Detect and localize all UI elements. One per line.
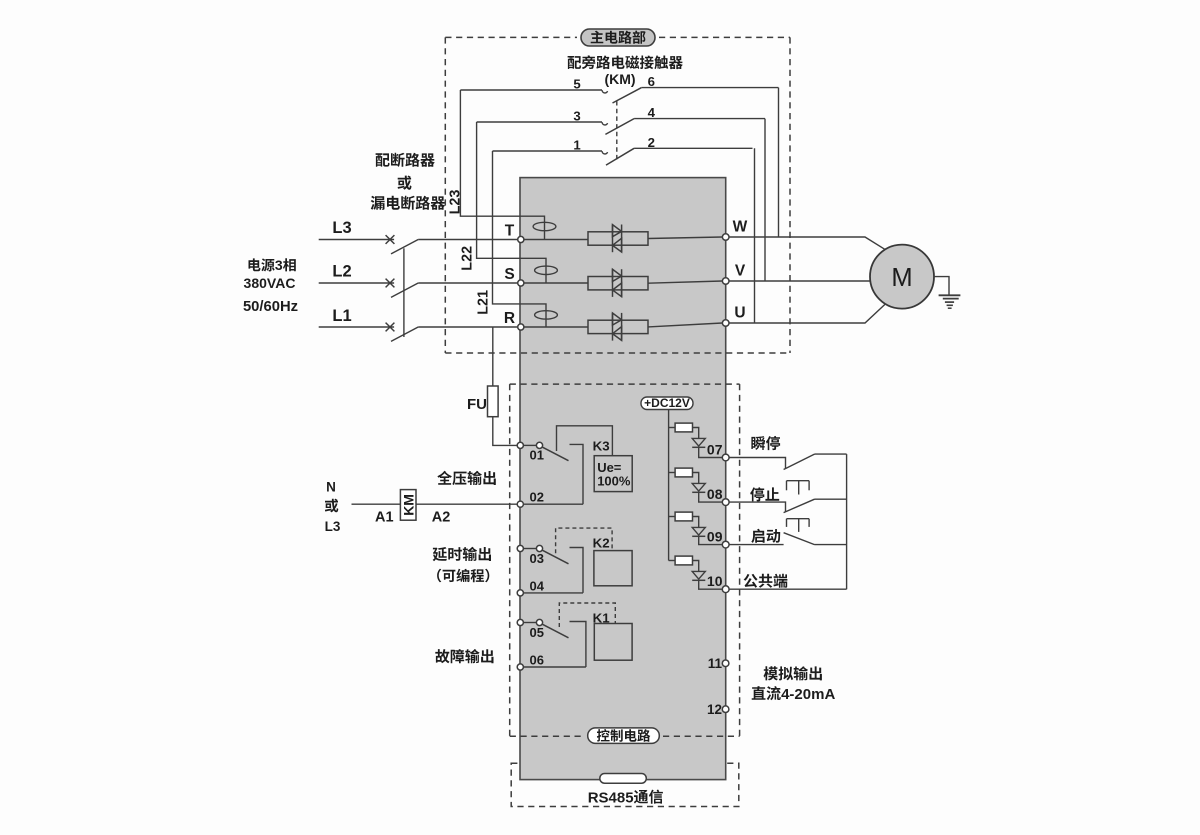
terminal 06 <box>517 664 523 670</box>
wire bus to resistor R4 <box>669 560 676 562</box>
wire terminal 10 common <box>729 588 847 590</box>
svg-text:2: 2 <box>648 135 655 150</box>
RS485 communication dashed box <box>511 763 739 806</box>
svg-text:3: 3 <box>275 257 283 273</box>
wire contact 4 to V <box>764 119 766 281</box>
wire diode to terminal 07 <box>699 447 723 457</box>
svg-text:50/60Hz: 50/60Hz <box>243 299 298 315</box>
svg-text:380VAC: 380VAC <box>244 275 296 291</box>
wire KM coil to terminal 02 <box>416 503 517 505</box>
svg-text:06: 06 <box>530 653 544 668</box>
breaker pole L1 <box>319 323 419 342</box>
resistor R3 <box>675 512 692 521</box>
label 故障输出 <box>435 649 493 663</box>
svg-text:V: V <box>735 263 746 280</box>
svg-text:02: 02 <box>530 490 544 505</box>
wire breaker L1 to terminal R <box>418 326 517 328</box>
svg-text:R: R <box>504 310 515 327</box>
label pill 控制电路 <box>588 728 660 744</box>
svg-text:07: 07 <box>707 442 723 458</box>
breaker mechanical link <box>403 248 405 337</box>
wire diode to terminal 08 <box>699 492 723 502</box>
svg-text:A2: A2 <box>432 509 451 525</box>
wire contact 2 to U <box>754 148 756 323</box>
svg-text:L23: L23 <box>447 190 463 215</box>
svg-text:100%: 100% <box>597 473 631 488</box>
wire W to motor <box>729 237 885 249</box>
wire fuse to terminal 01 <box>493 417 517 446</box>
label （可编程） <box>437 569 489 583</box>
wire diode to terminal 10 <box>699 580 723 589</box>
wire T row into thyristor module <box>524 239 588 241</box>
svg-text:04: 04 <box>530 578 545 593</box>
svg-text:L1: L1 <box>332 307 351 325</box>
breaker pole L2 <box>319 279 419 298</box>
svg-text:T: T <box>505 223 515 240</box>
common rail wire <box>846 454 848 589</box>
contact pivot 01 <box>536 442 542 448</box>
relay coil box K1 <box>594 624 632 661</box>
terminal R <box>518 324 524 330</box>
wire resistor to diode D1 <box>693 428 699 439</box>
wire terminal 06 <box>523 666 586 668</box>
wire bus to resistor R1 <box>669 427 676 429</box>
svg-text:FU: FU <box>467 396 487 413</box>
wire module to terminal U <box>648 323 722 327</box>
RS485 connector pill on body bottom edge <box>600 774 647 784</box>
label pill 主电路部 <box>581 29 655 46</box>
svg-text:N: N <box>326 480 336 495</box>
wire bus to resistor R3 <box>669 516 676 518</box>
fixed contact K3 <box>570 444 584 504</box>
svg-text:L21: L21 <box>475 290 491 315</box>
wire terminal 09 to start button <box>729 544 784 546</box>
terminal 09 <box>722 541 729 548</box>
label 配断路器 或 漏电断路器 <box>376 153 435 167</box>
wire module to terminal W <box>648 237 722 239</box>
wire resistor to diode D2 <box>693 473 699 484</box>
wire terminal 02 <box>523 503 583 505</box>
svg-text:S: S <box>504 266 514 283</box>
label 停止 <box>750 487 779 501</box>
terminal 02 <box>517 501 523 507</box>
wire L23 (contact 5 to T) <box>460 90 544 240</box>
wire terminal 05 to contact <box>523 622 536 624</box>
wire breaker L2 to terminal S <box>418 282 517 284</box>
relay contact blade K3 <box>543 447 569 461</box>
svg-text:4-20mA: 4-20mA <box>781 686 835 703</box>
terminal V <box>722 278 729 285</box>
diode D4 <box>692 571 705 580</box>
resistor R4 <box>675 556 692 565</box>
label 直流4-20mA <box>752 686 781 700</box>
pushbutton 瞬停 blade <box>784 454 815 469</box>
svg-text:3: 3 <box>573 109 580 124</box>
motor M <box>870 245 934 309</box>
label 电源3相 380VAC 50/60Hz <box>249 258 275 271</box>
current transformer CT2 <box>535 266 558 274</box>
svg-text:(KM): (KM) <box>604 71 635 87</box>
fixed contact K1 <box>570 622 586 668</box>
wire terminal 07 to stop button <box>729 458 785 469</box>
svg-text:K1: K1 <box>593 611 611 626</box>
svg-text:08: 08 <box>707 486 723 502</box>
wire L22 (contact 3 to S) <box>477 122 546 283</box>
resistor R1 <box>675 423 692 432</box>
wire 停止 to common rail <box>815 498 847 500</box>
control circuit dashed box 控制电路 <box>510 383 740 385</box>
wire S row into thyristor module <box>524 282 588 284</box>
wire diode to terminal 09 <box>699 536 723 544</box>
svg-text:K3: K3 <box>593 438 610 453</box>
terminal 10 <box>722 586 729 593</box>
current transformer CT3 <box>533 222 556 230</box>
contact pivot 03 <box>536 545 542 551</box>
relay coil box K2 <box>594 551 632 586</box>
diode D3 <box>692 527 705 536</box>
thyristor module T-W <box>588 225 648 253</box>
contact pivot 05 <box>536 619 542 625</box>
current transformer CT1 <box>535 311 558 319</box>
label 全压输出 <box>437 471 495 485</box>
label +DC12V <box>641 397 693 410</box>
svg-text:10: 10 <box>707 573 723 589</box>
svg-text:12: 12 <box>707 702 722 717</box>
svg-text:01: 01 <box>530 448 544 463</box>
relay coil box K3 <box>594 456 632 492</box>
mechanical link K2 <box>556 528 613 553</box>
wire terminal 04 <box>523 592 583 594</box>
main circuit dashed box 主电路部 <box>445 36 577 38</box>
wire bus to resistor R2 <box>669 472 676 474</box>
svg-text:09: 09 <box>707 529 723 545</box>
diode D2 <box>692 483 705 492</box>
contactor KM mechanical link (dashed) <box>616 101 618 161</box>
wire +DC12V bus <box>668 410 670 561</box>
svg-text:11: 11 <box>708 656 723 671</box>
contactor KM contact 5-6 <box>460 88 778 103</box>
terminal S <box>518 280 524 286</box>
wire 瞬停 to common rail <box>815 453 847 455</box>
svg-text:5: 5 <box>573 77 580 92</box>
wire breaker L3 to terminal T <box>418 239 518 241</box>
wire V to motor <box>729 280 870 282</box>
label 公共端 <box>744 574 788 588</box>
relay contact blade K1 <box>543 624 569 638</box>
wire terminal 08 to stop button <box>729 502 785 512</box>
diode D1 <box>692 438 705 447</box>
label 配旁路电磁接触器 <box>568 55 683 69</box>
fuse FU <box>488 386 499 417</box>
relay contact K3 terminal 01 <box>517 442 523 448</box>
svg-text:L3: L3 <box>325 519 341 534</box>
wire 启动 to common rail <box>815 544 847 546</box>
svg-text:L22: L22 <box>459 246 475 271</box>
svg-text:6: 6 <box>648 74 655 89</box>
wire R row into thyristor module <box>524 326 588 328</box>
thyristor module S-V <box>588 269 648 297</box>
wire terminal 01 to contact <box>523 444 536 446</box>
breaker pole L3 <box>319 235 419 254</box>
terminal W <box>722 234 729 241</box>
svg-text:05: 05 <box>530 625 544 640</box>
resistor R2 <box>675 468 692 477</box>
mechanical link K3 <box>557 426 613 456</box>
label 模拟输出 <box>764 666 822 680</box>
fixed contact K2 <box>570 548 584 593</box>
label 瞬停 <box>751 436 780 450</box>
terminal 04 <box>517 590 523 596</box>
terminal 07 <box>722 454 729 461</box>
terminal U <box>722 320 729 327</box>
wire L21 (contact 1 to R) <box>493 151 547 327</box>
terminal 11 <box>722 660 729 667</box>
relay contact K2 terminal 03 <box>517 545 523 551</box>
label 延时输出 <box>433 547 491 561</box>
svg-text:W: W <box>733 219 748 236</box>
svg-text:A1: A1 <box>375 509 394 525</box>
terminal 12 <box>722 706 729 713</box>
soft starter body (grey box) <box>520 178 726 780</box>
mechanical link K1 <box>559 603 615 627</box>
svg-text:RS485: RS485 <box>588 789 634 806</box>
relay contact K1 terminal 05 <box>517 619 523 625</box>
relay contact blade K2 <box>543 550 569 564</box>
svg-text:03: 03 <box>530 551 544 566</box>
wire resistor to diode D4 <box>693 561 699 572</box>
svg-text:KM: KM <box>400 494 416 516</box>
contactor KM contact 1-2 <box>493 148 753 165</box>
wire module to terminal V <box>648 281 722 283</box>
ground <box>939 295 961 308</box>
svg-text:U: U <box>734 305 745 322</box>
wire resistor to diode D3 <box>693 517 699 528</box>
wire U to motor <box>729 305 885 324</box>
wire R row to fuse FU <box>492 327 494 386</box>
svg-text:K2: K2 <box>593 535 610 550</box>
terminal T <box>518 236 524 242</box>
svg-text:L3: L3 <box>332 219 351 237</box>
thyristor module R-U <box>588 313 648 341</box>
pushbutton 启动 (NO) <box>784 519 815 545</box>
svg-text:4: 4 <box>648 105 656 120</box>
wire N to KM coil <box>352 503 401 505</box>
svg-text:+DC12V: +DC12V <box>644 396 690 410</box>
terminal 08 <box>722 499 729 506</box>
svg-text:L2: L2 <box>332 263 351 281</box>
wire terminal 03 to contact <box>523 548 536 550</box>
wire contact 6 to W <box>778 88 780 237</box>
svg-text:1: 1 <box>573 138 580 153</box>
wire motor to ground <box>934 277 949 295</box>
contactor KM contact 3-4 <box>477 119 765 135</box>
label 启动 <box>751 529 780 543</box>
contactor coil KM (A1-A2) <box>400 490 416 521</box>
pushbutton 停止 (NC) <box>784 481 815 513</box>
svg-text:M: M <box>891 264 912 292</box>
